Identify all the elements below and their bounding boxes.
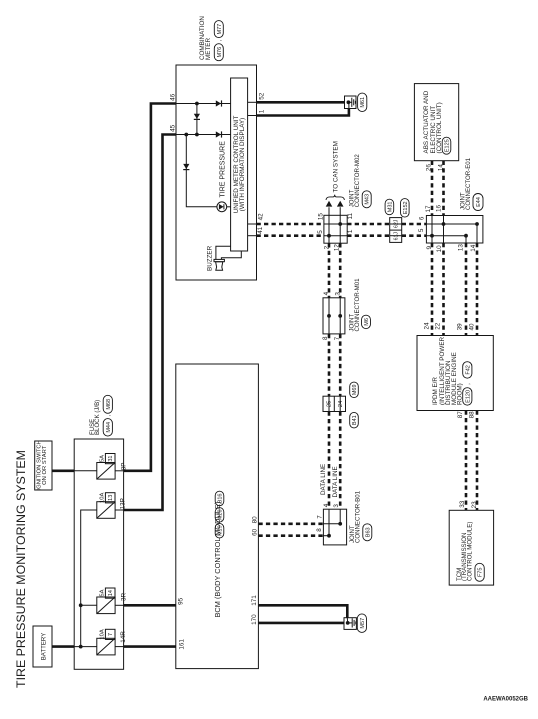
inline connector 61J box: [390, 218, 402, 243]
svg-text:M19: M19: [217, 525, 223, 536]
svg-text:M69: M69: [352, 384, 358, 395]
wire BCM 60 to B63 pin8: [258, 534, 323, 537]
svg-text:E152: E152: [403, 201, 409, 214]
svg-text:25: 25: [327, 401, 333, 407]
wire 46 to fuse 8P: [124, 104, 176, 471]
svg-text:TO CAN SYSTEM: TO CAN SYSTEM: [332, 141, 339, 192]
wire pin45 internal: [176, 134, 231, 136]
svg-text:B41: B41: [352, 415, 358, 425]
wire pin52 stub: [248, 101, 257, 103]
fuse 10A 13: [97, 502, 115, 519]
wire BCM170 to M57: [258, 622, 344, 625]
61J internal wires: [390, 223, 402, 225]
svg-text:13: 13: [457, 244, 464, 252]
BCM box: [176, 364, 259, 669]
svg-text:BATTERY: BATTERY: [41, 633, 48, 661]
svg-text:42: 42: [257, 213, 264, 221]
ground M57: [344, 618, 356, 630]
connector M43: [362, 191, 371, 208]
svg-text:M68: M68: [106, 399, 112, 410]
svg-text:F75: F75: [478, 568, 484, 577]
svg-text:39: 39: [457, 323, 464, 331]
svg-text:B16: B16: [217, 494, 223, 504]
node M02-A: [338, 222, 342, 226]
wire IPDM88 to TCM: [476, 411, 479, 511]
node bus-batt: [79, 645, 83, 649]
fuse block box: [74, 439, 123, 669]
svg-text:B63: B63: [365, 527, 371, 537]
B63 internal wires: [328, 509, 330, 536]
wire pin41 stub: [248, 235, 257, 237]
svg-text:ABS ACTUATOR AND: ABS ACTUATOR AND: [423, 90, 430, 153]
svg-text:M31: M31: [387, 202, 393, 213]
wire E44-13 to IPDM: [465, 243, 468, 336]
fuse 5A 14: [97, 597, 115, 614]
diode D3: [194, 114, 200, 119]
svg-text:3R: 3R: [120, 593, 127, 602]
connector M61: [358, 93, 367, 112]
node J1: [195, 102, 199, 106]
wire E44-14 to IPDM: [476, 243, 479, 336]
connector M69: [350, 382, 359, 398]
svg-text:,: ,: [465, 383, 472, 385]
svg-text:11: 11: [347, 212, 354, 219]
svg-text:87: 87: [457, 411, 464, 419]
wire pin42 stub: [248, 223, 257, 225]
M01 internal wires: [328, 298, 330, 334]
svg-text:IPDM E/R: IPDM E/R: [432, 377, 439, 405]
wire CAN down B41 to B63 a: [328, 412, 331, 510]
M02 internal wires: [324, 223, 347, 225]
svg-text:61J: 61J: [394, 232, 400, 241]
wire lamp to unit: [227, 206, 231, 208]
svg-text:TIRE PRESSURE: TIRE PRESSURE: [219, 141, 226, 198]
svg-text:14: 14: [108, 590, 114, 596]
svg-text:6: 6: [418, 216, 425, 220]
node M02-B: [327, 234, 331, 238]
joint connector M01 box: [323, 298, 345, 334]
diode D4: [183, 164, 189, 169]
node B63-A: [338, 522, 342, 526]
svg-text:45: 45: [170, 124, 177, 132]
E44 internal wires: [431, 216, 433, 244]
node E44-2: [475, 222, 479, 226]
connector E125: [442, 137, 451, 154]
svg-text:10: 10: [436, 245, 443, 253]
svg-text:M43: M43: [365, 194, 371, 205]
svg-text:3: 3: [333, 504, 340, 508]
node M01-B: [338, 314, 342, 318]
inline connector B41/M69 box: [323, 396, 346, 411]
svg-text:BLOCK (J/B): BLOCK (J/B): [94, 400, 101, 435]
svg-text:BUZZER: BUZZER: [206, 245, 213, 271]
wire E44-10 to IPDM: [442, 243, 445, 336]
buzzer BZ1: [214, 259, 224, 261]
svg-text:,: ,: [105, 414, 112, 416]
node J3: [184, 133, 188, 137]
svg-text:8: 8: [316, 528, 323, 532]
wire 42 M02 to 61J: [347, 223, 390, 226]
svg-text:23: 23: [471, 501, 478, 509]
wire 1 to M61: [257, 109, 349, 116]
wire IPDM87 to TCM: [465, 411, 468, 511]
connector E44: [473, 194, 483, 211]
wire CAN-H 42 to M02: [257, 223, 324, 226]
svg-text:33: 33: [459, 500, 466, 508]
svg-text:7: 7: [108, 633, 114, 636]
svg-text:M76: M76: [217, 47, 223, 58]
svg-text:60: 60: [251, 528, 258, 536]
connector M31: [385, 199, 394, 215]
connector F75: [475, 563, 484, 581]
IPDM E/R box: [417, 336, 493, 411]
svg-text:M57: M57: [360, 618, 366, 629]
ground M61: [345, 96, 357, 109]
wire 52 to M61: [257, 101, 345, 104]
svg-text:22: 22: [435, 322, 442, 330]
svg-text:16: 16: [435, 205, 442, 213]
svg-text:14R: 14R: [120, 631, 127, 643]
svg-text:1: 1: [258, 109, 265, 113]
svg-text:CONNECTOR-B01: CONNECTOR-B01: [354, 490, 361, 543]
wire 42 61J to E44: [402, 223, 427, 226]
connector M44: [103, 419, 112, 437]
svg-text:10A: 10A: [99, 493, 105, 503]
connector M77: [214, 21, 223, 38]
svg-text:F42: F42: [465, 365, 471, 374]
fuse internal wires: [115, 470, 124, 472]
buzzer wires: [216, 246, 231, 259]
wire J1-J2: [196, 104, 198, 135]
connector F42: [463, 362, 472, 379]
svg-text:CONNECTOR-E01: CONNECTOR-E01: [465, 157, 472, 210]
svg-text:170: 170: [251, 614, 258, 625]
combination meter box: [176, 65, 257, 280]
connector B63: [363, 524, 372, 541]
svg-text:4: 4: [323, 291, 330, 295]
svg-text:METER: METER: [205, 38, 212, 60]
svg-text:80: 80: [251, 516, 258, 524]
wire ABS26 to E44: [431, 161, 434, 216]
svg-text:M20: M20: [217, 509, 223, 520]
svg-text:52: 52: [258, 92, 265, 100]
svg-text:M44: M44: [106, 422, 112, 433]
svg-text:(WITH INFORMATION DISPLAY): (WITH INFORMATION DISPLAY): [239, 118, 246, 212]
svg-text:CONTROL MODULE): CONTROL MODULE): [467, 522, 474, 581]
joint connector E01 box: [426, 216, 483, 244]
node E44-4: [464, 234, 468, 238]
unified meter control unit box U1: [231, 78, 248, 251]
connector E120: [463, 388, 472, 406]
joint connector M02 box: [324, 215, 347, 243]
svg-text:,: ,: [216, 39, 223, 41]
svg-text:CONNECTOR-M02: CONNECTOR-M02: [354, 154, 361, 208]
wire tire pressure branch: [186, 135, 217, 207]
to CAN system arrows: [328, 207, 330, 215]
indicator lamp tire pressure: [217, 202, 227, 212]
wire ABS14 to E44: [442, 161, 445, 216]
svg-text:10A: 10A: [99, 629, 105, 639]
connector M19: [215, 523, 224, 538]
fuse 10A 7: [97, 638, 115, 655]
wire ignition to fuse block: [52, 469, 74, 472]
joint connector B63 box: [323, 509, 346, 545]
svg-text:13: 13: [108, 495, 114, 501]
wire pin1 stub: [248, 115, 257, 117]
svg-text:5: 5: [418, 228, 425, 232]
node B63-B: [327, 534, 331, 538]
node E44-1: [442, 222, 446, 226]
svg-text:24: 24: [338, 400, 344, 407]
svg-text:5A: 5A: [99, 589, 105, 596]
wire CAN down M02 to M01 b: [339, 243, 342, 298]
wire BCM171 to M57: [258, 605, 347, 617]
battery box: [33, 626, 52, 667]
B41 internal wires: [328, 396, 330, 411]
wire pin46 internal: [176, 103, 231, 105]
diode D1: [216, 100, 221, 106]
brace: [326, 195, 344, 200]
svg-text:161: 161: [178, 639, 185, 650]
svg-text:24: 24: [424, 322, 431, 330]
svg-text:15: 15: [318, 213, 325, 221]
connector E152: [401, 199, 410, 218]
node M01-A: [327, 314, 331, 318]
wire CAN down M01 to B41 a: [328, 334, 331, 396]
connector M57: [357, 614, 366, 633]
svg-text:8P: 8P: [120, 463, 127, 471]
wire fuse 14R to BCM 161: [124, 645, 176, 648]
wire 41 61J to E44: [402, 234, 427, 237]
wire battery to fuse block: [52, 645, 74, 648]
svg-text:62J: 62J: [394, 219, 400, 228]
svg-text:40: 40: [468, 323, 475, 331]
node bus-3R: [79, 603, 83, 607]
svg-text:CONNECTOR-M01: CONNECTOR-M01: [354, 278, 361, 332]
connector M68: [103, 395, 112, 413]
svg-text:TIRE PRESSURE MONITORING SYSTE: TIRE PRESSURE MONITORING SYSTEM: [14, 450, 28, 688]
wire fuse 3R to BCM 95: [124, 604, 176, 607]
node E44-3: [430, 234, 434, 238]
svg-text:5: 5: [317, 230, 324, 234]
ABS actuator and electric unit box: [414, 84, 458, 161]
svg-text:17: 17: [425, 205, 432, 213]
connector M76: [214, 44, 223, 61]
svg-text:95: 95: [178, 597, 185, 605]
svg-text:5A: 5A: [99, 455, 105, 462]
svg-text:46: 46: [170, 93, 177, 101]
svg-text:E44: E44: [476, 197, 482, 207]
wire 45 to fuse 13P: [124, 135, 176, 511]
connector B16: [215, 491, 224, 506]
ignition switch box: [35, 441, 52, 490]
fuse 5A 31: [97, 463, 115, 480]
connector M20: [215, 508, 224, 523]
connector B41: [350, 412, 359, 428]
svg-text:31: 31: [108, 456, 114, 462]
wire CAN down M02 to M01 a: [328, 243, 331, 298]
svg-text:3: 3: [334, 292, 341, 296]
svg-text:DATA LINE: DATA LINE: [320, 464, 327, 495]
wire E44-9 to IPDM: [431, 243, 434, 336]
svg-text:7: 7: [316, 515, 323, 519]
svg-text:13P: 13P: [120, 498, 127, 509]
wire CAN-L 41 to M02: [257, 234, 324, 237]
wire BCM 80 to B63 pin7: [258, 522, 323, 525]
svg-text:DATA LINE: DATA LINE: [332, 466, 339, 497]
svg-text:41: 41: [257, 226, 264, 234]
svg-text:ON OR START: ON OR START: [42, 445, 48, 485]
battery bus: [81, 510, 97, 647]
svg-text:88: 88: [468, 411, 475, 419]
svg-text:E125: E125: [444, 139, 450, 152]
svg-text:1: 1: [347, 229, 354, 233]
svg-text:AAEWA0052GB: AAEWA0052GB: [483, 697, 528, 703]
svg-text:M61: M61: [360, 97, 366, 108]
diode D2: [216, 131, 221, 137]
svg-text:M77: M77: [217, 24, 223, 35]
svg-text:171: 171: [251, 595, 258, 606]
svg-text:4: 4: [323, 503, 330, 507]
wire 41 M02 to 61J: [347, 234, 390, 237]
svg-text:M6: M6: [364, 318, 370, 326]
svg-text:E120: E120: [465, 390, 471, 403]
node J2: [195, 133, 199, 137]
wire CAN down B41 to B63 b: [339, 412, 342, 510]
wire CAN down M01 to B41 b: [339, 334, 342, 396]
TCM box: [449, 510, 493, 585]
connector M6: [362, 315, 371, 329]
